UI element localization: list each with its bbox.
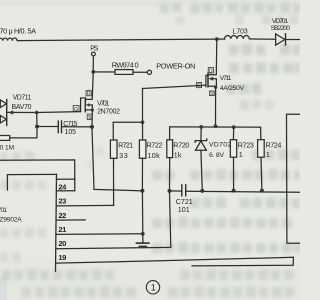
diode VD701 SB2200 [276,34,286,45]
node source rail V711 [214,124,218,128]
wire R722 riser from gate line [142,89,144,123]
node C715 left junction [35,125,39,129]
resistor R721 33 [110,140,117,158]
svg-text:70 μ H/0. 5A: 70 μ H/0. 5A [0,26,36,35]
wire C721 drop to pin20 [57,193,171,249]
wire R721 top [113,122,142,140]
svg-text:D: D [87,91,91,97]
svg-text:V701: V701 [97,100,109,107]
transistor V701 2N7002 [81,98,93,112]
wire source rail [170,126,261,128]
transistor V711 4A/250V [206,73,217,87]
wire V711 drain column [208,39,217,75]
wire PS junction to RW974 [93,71,115,73]
resistor R723 1 [230,140,236,158]
svg-text:1: 1 [266,150,270,159]
IC N701 box [7,174,56,271]
wire to V701 gate [37,111,81,114]
svg-text:PS: PS [90,46,98,53]
svg-text:L703: L703 [233,29,248,36]
svg-text:V711: V711 [220,75,232,82]
ground [136,234,149,247]
node PS junction [91,70,95,74]
wire V701 source column down [92,129,142,191]
pin label box S of V711 [209,91,214,96]
diode VD702 6.8V zener [195,127,207,191]
pin label box D of V701 [86,91,91,96]
resistor RW974 0 [115,70,133,75]
svg-text:101: 101 [178,205,190,214]
svg-text:21: 21 [58,225,67,234]
resistor R720 1k [167,140,173,158]
node source rail R723 [232,125,236,129]
node VD711 junction b [35,111,38,114]
pin label box G of V701 [73,106,79,112]
node C715 right junction [90,125,94,129]
node R722 top junction [141,120,145,124]
svg-text:C715: C715 [63,121,77,128]
wire V701 drain column [86,74,93,100]
resistor R724 1 [258,140,265,158]
pin 21 wire [57,233,143,236]
svg-text:2N7002: 2N7002 [97,108,120,115]
node R722 bottom junction [140,189,144,193]
svg-text:6. 8V: 6. 8V [209,152,224,159]
wire R722 top lead [142,122,144,140]
svg-text:105: 105 [65,129,77,136]
svg-text:R723: R723 [238,141,254,150]
pin 24 rung [57,178,75,180]
wire VD701 to right edge [286,39,301,41]
inductor L703 [225,36,250,40]
capacitor C715 105 [58,121,61,133]
pin 22 wire [57,219,86,221]
wire R724 top lead [260,127,262,140]
pin label box G of V711 [197,82,202,87]
wire R722 junction to ground [141,191,143,234]
svg-text:19: 19 [58,253,66,262]
svg-text:0 1M: 0 1M [0,144,14,151]
wire junction to 1M resistor [10,129,37,138]
svg-text:1: 1 [239,150,243,159]
pin 19 wire [57,257,294,266]
svg-text:22: 22 [58,211,66,220]
wire bottom rail right segment [186,191,300,192]
wire R720 top lead [169,127,171,140]
pin 24 wire [57,190,75,192]
right block box [287,114,301,243]
wire V701 source down [91,110,93,127]
wire junction b down [36,113,38,127]
wire PS down [92,56,94,72]
wire rail to L703 [217,38,225,40]
node bottom rail R724 [260,189,264,193]
svg-text:33: 33 [119,151,128,160]
svg-text:D: D [209,68,213,74]
node V701 source junction [91,108,94,111]
svg-text:POWER-ON: POWER-ON [156,61,195,70]
wire L703 to VD701 [249,38,275,40]
svg-text:20: 20 [58,239,66,248]
node PS terminal [92,52,96,56]
svg-text:10k: 10k [148,151,161,160]
svg-text:RW974 0: RW974 0 [112,60,139,69]
wire R723 bottom [233,157,235,190]
wire W1 pin24 net [0,160,75,191]
wire R723 top lead [232,127,234,140]
svg-text:R722: R722 [147,141,163,150]
node pin21 junction [141,232,145,236]
node VD711 junction a [10,111,13,114]
capacitor C721 101 [182,185,186,196]
svg-text:SB2200: SB2200 [271,25,291,32]
wire to C715 [37,126,58,128]
svg-text:23: 23 [58,196,66,205]
svg-text:1: 1 [151,283,156,293]
svg-text:Z9902A: Z9902A [0,216,22,223]
wire bottom rail left segment [170,190,182,192]
wire R722 bottom [141,158,143,191]
svg-text:R720: R720 [173,140,189,149]
symbol circled 1 [146,281,159,294]
svg-text:701: 701 [0,207,7,214]
wire R721 bottom to pin23 [113,158,115,205]
wire R724 bottom [260,157,263,190]
node POWER-ON terminal [147,70,151,74]
svg-text:G: G [197,83,201,89]
node source rail VD702 [199,125,203,129]
pin 23 wire [57,204,114,207]
svg-text:G: G [74,107,78,113]
node C721 left junction [168,189,172,193]
node top rail junction [215,37,219,41]
diode VD711 BAV70 dual [0,100,6,126]
wire C715 to source node [62,126,93,128]
svg-text:VD702: VD702 [209,142,231,149]
svg-text:VD711: VD711 [13,95,32,102]
svg-text:1k: 1k [174,150,182,159]
svg-text:S: S [88,115,92,121]
resistor R7xx 1M [0,136,10,141]
resistor R722 10k [139,140,146,158]
svg-text:4A/250V: 4A/250V [220,85,245,92]
wire RW974 to POWER-ON [133,71,147,73]
wire V711 source down [215,87,217,126]
svg-text:R724: R724 [265,141,281,150]
node bottom rail VD702 [200,189,204,193]
svg-text:24: 24 [58,182,67,191]
wire R720 bottom [169,158,171,191]
wire top rail [17,39,217,41]
pin label box S of V701 [87,114,92,119]
wire VD711 cathode out [7,111,37,113]
node bottom rail R723 [232,189,236,193]
inductor L7xx 70uH/0.5A [0,38,17,41]
node V711 source junction [214,86,217,89]
wire V711 gate line [143,85,206,88]
svg-text:BAV70: BAV70 [12,104,32,111]
pin label box D of V711 [208,67,213,73]
svg-text:S: S [210,91,214,97]
svg-text:R721: R721 [118,141,133,150]
